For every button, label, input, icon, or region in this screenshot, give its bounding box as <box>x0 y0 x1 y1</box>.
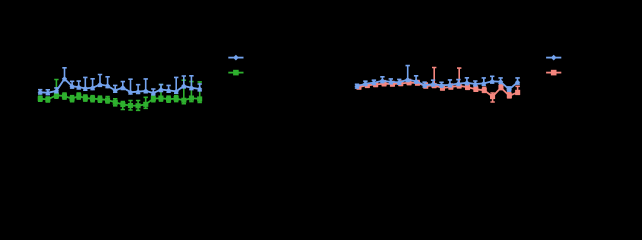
right blue dip circle marker <box>507 87 512 92</box>
legend entry 2 <box>546 72 561 74</box>
right blue series markers <box>354 77 520 92</box>
left green series error bars <box>38 80 202 111</box>
left blue series error bars <box>38 68 202 95</box>
left blue series markers <box>38 76 203 96</box>
left blue series line <box>40 79 200 93</box>
legend entry 1 <box>228 57 243 59</box>
right salmon series markers <box>356 80 520 99</box>
legend entry 1 <box>546 57 561 59</box>
legend entry 2 <box>228 72 243 74</box>
left green series markers <box>38 93 203 109</box>
right salmon series line <box>359 83 518 97</box>
right blue series line <box>357 80 518 90</box>
right salmon series error bars <box>357 68 520 103</box>
left green series line <box>40 95 200 106</box>
right blue series error bars <box>355 66 520 92</box>
